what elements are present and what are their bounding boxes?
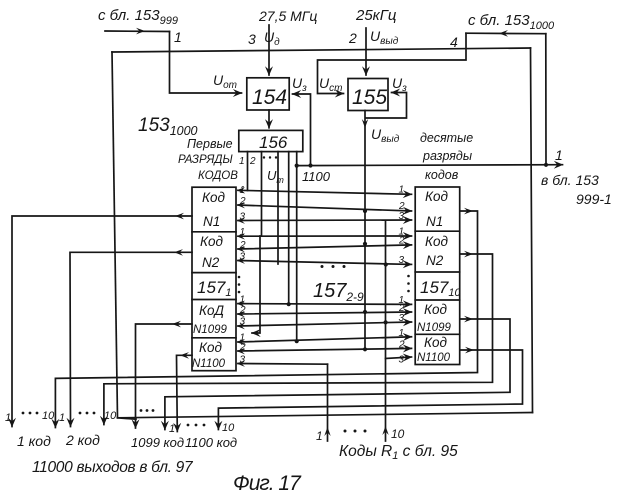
junction Uвыд to N1 pin2 row (363, 209, 367, 213)
wire 156 pin Uт vertical (277, 152, 279, 264)
arrowhead on N2 output (174, 249, 183, 256)
svg-text:1: 1 (169, 423, 175, 435)
svg-text:Uз: Uз (392, 75, 407, 94)
svg-text:РАЗРЯДЫ: РАЗРЯДЫ (178, 154, 233, 166)
junction 156 pin 1100 on row 165 (295, 164, 299, 168)
junction Uвыд to N1099 pin2 row (363, 310, 367, 314)
svg-text:N1099: N1099 (193, 324, 227, 336)
svg-text:Код: Код (199, 340, 222, 355)
pin row N1 pin2 (238, 205, 412, 211)
svg-text:Uвыд: Uвыд (370, 28, 399, 47)
svg-text:3: 3 (399, 355, 405, 366)
arrowhead up on R1 bit10 (382, 426, 388, 435)
block 155 (348, 79, 388, 111)
svg-text:N1100: N1100 (417, 352, 451, 364)
svg-text:10: 10 (104, 410, 117, 422)
svg-text:1: 1 (240, 227, 246, 238)
wire stub into Код N1100 pin1 (252, 236, 260, 333)
svg-text:3: 3 (240, 355, 246, 366)
svg-text:Uвыд: Uвыд (371, 126, 400, 145)
wire right outer vertical B (x~531) (531, 48, 533, 413)
arrowhead on 153-1000 wire (499, 30, 508, 37)
svg-text:Uст: Uст (319, 75, 342, 94)
svg-text:3: 3 (240, 252, 246, 263)
wire right Код N1 output loop to 1-10 of group1 (55, 211, 477, 428)
svg-text:3: 3 (399, 211, 405, 222)
svg-text:Первые: Первые (187, 137, 233, 151)
arrowhead on right N1 output (464, 208, 473, 215)
svg-text:3: 3 (399, 313, 405, 324)
divider 157-10 (415, 230, 460, 232)
svg-text:Фиг. 17: Фиг. 17 (233, 472, 302, 495)
wire 154 to 156 (268, 110, 270, 128)
svg-text:2: 2 (398, 340, 405, 351)
wire output Код N2 left to 2 код (70, 252, 192, 426)
wire 154 Uз feedback from row 165 (293, 94, 311, 166)
pin row N1100 pin3 left part to R1 bit1 riser (238, 363, 328, 366)
svg-text:999-1: 999-1 (576, 191, 612, 207)
svg-text:Код: Код (424, 335, 447, 350)
wire output Код N1099 left to 1099 код (136, 324, 193, 428)
svg-text:десятые: десятые (420, 131, 473, 145)
svg-text:1: 1 (399, 185, 405, 196)
divider 157-1 (192, 231, 236, 233)
wire vertical A from 153-1000 corner down to output row (545, 34, 547, 165)
arrowhead on right N1100 output (465, 347, 474, 354)
svg-text:11000 выходов в бл. 97: 11000 выходов в бл. 97 (32, 459, 194, 476)
svg-text:1571: 1571 (197, 278, 232, 299)
svg-text:10: 10 (222, 422, 235, 434)
arrowhead on N1 output (175, 213, 184, 220)
wire Uд input into 154 (268, 25, 270, 75)
arrowhead on right N2 output (464, 251, 473, 258)
svg-text:1: 1 (316, 429, 323, 443)
svg-text:Код: Код (200, 234, 223, 249)
wire Uвыд output of 155 down through pin2 rows (364, 111, 366, 350)
svg-text:N2: N2 (202, 255, 220, 270)
svg-text:1: 1 (399, 328, 405, 339)
junction Uвыд to N2 pin2 row (363, 242, 367, 246)
svg-text:156: 156 (259, 133, 288, 152)
arrowhead left N1 pin1 (237, 187, 246, 194)
svg-text:1: 1 (240, 295, 246, 306)
group 3 dots (140, 409, 155, 412)
block stack 157-1 outline (192, 187, 236, 371)
svg-text:N1: N1 (203, 214, 220, 229)
svg-text:Uт: Uт (267, 168, 284, 185)
junction on row 165 to 154 Uз (308, 163, 312, 167)
svg-text:N2: N2 (426, 253, 444, 268)
wire right Код N1100 output loop (218, 350, 522, 430)
dots under 156 (263, 156, 277, 158)
svg-text:КОДОВ: КОДОВ (198, 170, 238, 182)
junction 156 pin to N1099 pin1 row (287, 302, 291, 306)
dots above 157 2-9 (321, 265, 346, 268)
pin row N2 pin2 (238, 245, 412, 249)
svg-text:КоД: КоД (199, 303, 224, 318)
svg-text:Код: Код (424, 302, 447, 317)
svg-text:25кГц: 25кГц (355, 7, 397, 24)
svg-text:2: 2 (239, 196, 246, 207)
svg-text:1100 код: 1100 код (185, 435, 237, 450)
svg-text:154: 154 (252, 86, 287, 109)
svg-text:N1: N1 (426, 214, 443, 229)
svg-text:155: 155 (352, 86, 387, 109)
wire from block 153-1000 (top right, arrow pointing left) (466, 32, 546, 35)
junction 156 pin 1100 to N1100 pin1 row (295, 339, 299, 343)
arrowhead up on R1 bit1 (324, 427, 330, 436)
svg-text:1: 1 (555, 147, 563, 163)
arrowhead on N1099 output (172, 321, 181, 328)
wire long bus from node 4 (y~49) (112, 48, 531, 52)
pin row N1100 pin3 right part from R1 bit10 riser (386, 357, 412, 359)
wire jog at node 4 down to Uст loop of 155 (318, 33, 467, 93)
svg-text:15710: 15710 (420, 278, 461, 299)
svg-text:1: 1 (174, 29, 182, 45)
block inner texts (192, 189, 461, 370)
ellipsis dots beside 157-10 (407, 275, 410, 293)
junction R1 bit10 to N1099 pin3 row (384, 320, 388, 324)
svg-text:в бл. 153: в бл. 153 (541, 172, 599, 188)
svg-text:с бл. 1531000: с бл. 1531000 (468, 12, 555, 32)
junction R1 bit10 to N2 pin3 row (384, 262, 388, 266)
svg-text:2: 2 (239, 305, 246, 316)
svg-text:Код: Код (425, 189, 448, 204)
svg-text:2: 2 (239, 342, 246, 353)
arrowhead mid wire 153-999 (136, 28, 145, 35)
wire output row 165 to block 153 999-1 (297, 164, 563, 167)
bottom labels (5, 409, 405, 443)
pin row N1099 pin1 (238, 303, 412, 306)
pin row N1 pin3 (238, 219, 412, 222)
svg-text:1: 1 (59, 412, 65, 424)
svg-text:3: 3 (240, 212, 246, 223)
wire 153-999 corner down and into 154 Uот (170, 32, 242, 94)
svg-text:Uз: Uз (292, 75, 307, 94)
wire 156 pin 1 vertical (247, 152, 249, 191)
svg-text:1100: 1100 (302, 169, 331, 184)
pin row N1099 pin2 (238, 312, 412, 314)
wire 156 pin 2 vertical (261, 152, 263, 236)
svg-text:Uот: Uот (213, 72, 237, 91)
block stack 157-10 outline (415, 187, 460, 365)
svg-text:N1100: N1100 (192, 358, 226, 370)
wire 156 pin 1100 vertical (296, 152, 298, 342)
wire input Коды R1 bit10 riser (385, 220, 387, 441)
svg-text:10: 10 (391, 427, 405, 441)
pin row N2 pin1 (238, 235, 412, 237)
svg-text:Коды R1 с бл. 95: Коды R1 с бл. 95 (339, 443, 458, 462)
svg-text:3: 3 (399, 255, 405, 266)
pin row N1 pin1 (238, 190, 412, 194)
block 154 (247, 78, 289, 110)
wire right Код N1099 output loop (165, 319, 510, 430)
pin row N2 pin3 (238, 261, 412, 265)
svg-text:1: 1 (5, 412, 11, 424)
svg-text:1: 1 (240, 185, 246, 196)
wire 156 pin 1099 vertical (288, 152, 290, 305)
svg-text:разряды: разряды (422, 149, 472, 163)
wire output Код N1100 left to 1100 код (177, 355, 193, 431)
svg-text:1099 код: 1099 код (131, 435, 184, 450)
svg-text:3: 3 (240, 317, 246, 328)
pin row N1100 pin2 (238, 348, 412, 351)
svg-text:1572-9: 1572-9 (313, 280, 364, 304)
svg-text:2: 2 (239, 240, 246, 251)
svg-text:10: 10 (42, 410, 55, 422)
svg-text:2: 2 (249, 156, 256, 167)
svg-text:2: 2 (398, 236, 405, 247)
wire input from block 153-999 (top segment with arrow) (105, 30, 170, 33)
arrowhead on Uвыд output (362, 119, 368, 128)
junction on row 165 at vertical A (544, 163, 548, 167)
svg-text:27,5 МГц: 27,5 МГц (258, 8, 317, 24)
junction Uвыд to N1100 pin2 row (363, 347, 367, 351)
wire 155 Uз feedback loop (366, 93, 407, 119)
svg-text:N1099: N1099 (417, 322, 451, 334)
svg-text:1531000: 1531000 (138, 115, 198, 138)
svg-text:кодов: кодов (425, 168, 459, 182)
svg-text:Код: Код (425, 234, 448, 249)
block 156 (239, 130, 303, 151)
wire output Код N1 left to 1 код (12, 216, 192, 427)
wire left outer vertical (x~112) (112, 52, 118, 418)
svg-text:1 код: 1 код (17, 433, 51, 449)
arrowhead on N1100 output (180, 352, 189, 359)
pin row N1100 pin1 (238, 337, 412, 342)
wire step joining 1099 output (118, 418, 137, 419)
wire bottom outer line (118, 413, 533, 418)
ellipsis dots beside 157-1 (238, 276, 241, 294)
svg-text:Uд: Uд (264, 29, 280, 48)
svg-text:с бл. 153999: с бл. 153999 (98, 7, 178, 27)
wire Uвыд input into 155 (365, 28, 367, 75)
svg-text:2: 2 (348, 30, 357, 46)
wire input Коды R1 bit1 riser (327, 364, 329, 441)
svg-text:3: 3 (248, 31, 256, 47)
pin row N1099 pin3 (238, 322, 412, 326)
wire right Код N2 output loop (104, 254, 493, 425)
svg-text:Код: Код (202, 190, 225, 205)
svg-text:1: 1 (239, 156, 245, 167)
svg-text:4: 4 (450, 34, 458, 50)
arrowhead on right N1099 output (464, 316, 473, 323)
svg-text:2 код: 2 код (65, 432, 100, 448)
